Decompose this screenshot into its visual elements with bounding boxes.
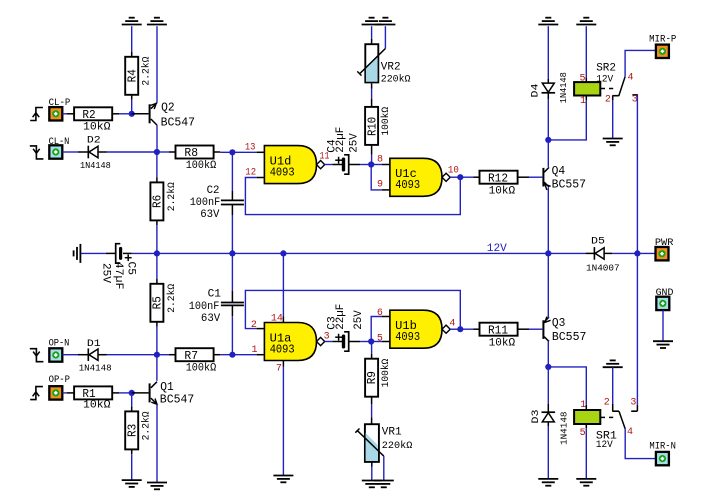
wire D1 to node (107, 354, 157, 356)
wire feedback U1c to U1d pin12 (245, 177, 460, 214)
label R11 (488, 323, 515, 349)
svg-text:100kΩ: 100kΩ (380, 359, 392, 388)
svg-text:10: 10 (448, 165, 459, 176)
wire node to U1c pin9 (371, 165, 390, 190)
node junction U1c out/R12/feedback (457, 174, 463, 180)
label D2 (80, 134, 111, 171)
node junction R8/C2/pin13 (229, 149, 235, 155)
svg-text:25V: 25V (353, 310, 365, 330)
svg-text:R6: R6 (151, 195, 165, 208)
svg-text:12V: 12V (596, 74, 614, 86)
wire node to U1b pin6 (371, 317, 390, 342)
svg-text:4: 4 (449, 319, 455, 330)
wire R9 to VR1 (371, 404, 373, 424)
svg-text:1N4148: 1N4148 (79, 362, 112, 373)
input symbol falling edge at CL-N (30, 146, 44, 159)
switch SR1 pin2 contact (612, 404, 619, 411)
svg-text:SR2: SR2 (596, 62, 616, 74)
label GND (656, 288, 674, 299)
wire node down to R6 (156, 152, 158, 182)
pin 1 label (252, 345, 258, 356)
wire C3 to node (360, 341, 371, 343)
wire SR2 coil to ground (585, 26, 587, 77)
svg-text:1: 1 (580, 400, 586, 411)
label D5 (586, 235, 620, 273)
svg-text:D1: D1 (87, 338, 101, 350)
wire U1c output to node (450, 176, 460, 178)
pin 3 label (324, 332, 330, 343)
ground above VR2 wiper (375, 18, 395, 25)
wire GND to ground (662, 310, 664, 341)
pin 1 label SR1 (580, 400, 586, 411)
net label 12V (487, 243, 507, 255)
wire D2 to node (107, 151, 157, 153)
nand gate U1b (390, 310, 450, 348)
ground below Q1 (147, 483, 167, 490)
svg-text:VR2: VR2 (381, 62, 401, 74)
label R9 (365, 359, 392, 388)
wire R11 to Q3 base (529, 328, 542, 330)
transistor Q3 (542, 317, 550, 342)
label R6 (151, 182, 178, 211)
ground above SR1 switch (603, 360, 623, 367)
node junction C4/R10/U1c pins (368, 161, 374, 167)
connector PWR (656, 247, 669, 260)
svg-text:220kΩ: 220kΩ (382, 440, 413, 452)
pin 9 label (377, 180, 383, 191)
wire node to R12 (460, 176, 479, 178)
svg-text:D4: D4 (530, 84, 542, 98)
svg-text:1N4148: 1N4148 (559, 411, 570, 445)
label R5 (151, 284, 178, 313)
svg-text:12V: 12V (596, 439, 613, 451)
wire R2 to node (119, 113, 132, 115)
svg-text:47µF: 47µF (112, 262, 124, 290)
wire C2 to 12V rail (231, 215, 233, 253)
connector OP-P (49, 386, 62, 399)
pin 7 label (276, 364, 282, 375)
svg-text:25V: 25V (100, 263, 112, 283)
ground left end of 12V rail (74, 244, 81, 263)
pin 10 label (448, 165, 459, 176)
label Q4 (552, 165, 587, 192)
svg-text:9: 9 (377, 180, 383, 191)
wire Q3 collector down to node (547, 341, 549, 367)
wire Q2 emitter to ground (156, 26, 158, 102)
svg-text:4093: 4093 (395, 178, 420, 192)
svg-text:R2: R2 (82, 108, 95, 122)
svg-text:63V: 63V (201, 313, 221, 325)
transistor Q1 (149, 382, 157, 405)
ground above R4 (122, 18, 142, 25)
capacitor C2 (221, 200, 244, 215)
label R10 (365, 107, 392, 136)
svg-text:D2: D2 (87, 134, 101, 146)
svg-text:10kΩ: 10kΩ (83, 121, 111, 133)
ground below SR2 switch (603, 139, 623, 146)
pin 4 label SR2 (628, 73, 634, 84)
label D1 (79, 338, 112, 373)
svg-text:1N4148: 1N4148 (558, 72, 569, 103)
variable resistor VR1 (355, 424, 384, 466)
pin 2 label SR2 (605, 94, 611, 105)
node junction rail/SR2-SR1 pin3 (634, 250, 640, 256)
variable resistor VR2 (357, 39, 385, 82)
svg-text:R11: R11 (488, 323, 508, 337)
wire C4 to node (360, 164, 371, 166)
pin 12 label (245, 167, 256, 178)
resistor R5 (150, 284, 163, 327)
ground above Q2 emitter (147, 18, 167, 25)
svg-text:PWR: PWR (655, 238, 674, 249)
node junction rail/C2/C1 (229, 250, 235, 256)
svg-text:4093: 4093 (270, 166, 295, 180)
label R4 (125, 57, 152, 86)
connector GND (656, 297, 669, 310)
resistor R8 (176, 146, 221, 159)
svg-text:1N4148: 1N4148 (80, 160, 111, 171)
svg-text:R9: R9 (365, 371, 379, 384)
svg-text:CL-N: CL-N (49, 137, 70, 148)
label R1 (82, 387, 111, 412)
svg-text:10kΩ: 10kΩ (489, 185, 516, 197)
svg-text:Q2: Q2 (161, 102, 175, 115)
connector CL-P (49, 107, 62, 120)
svg-text:R10: R10 (365, 117, 379, 136)
wire CL-N to D2 (62, 151, 88, 153)
wire node to U1b pin5 (371, 341, 390, 343)
diode D4 (542, 83, 556, 93)
pin 14 label (271, 314, 283, 325)
svg-text:OP-N: OP-N (49, 338, 70, 349)
wire VR2 wiper to ground (384, 26, 386, 48)
resistor R11 (480, 323, 530, 336)
resistor R6 (150, 182, 163, 225)
wire U1a pin7 to ground (282, 361, 284, 476)
pin 11 label (320, 151, 330, 162)
nand gate U1d (264, 146, 324, 184)
label VR1 (382, 427, 413, 452)
svg-text:3: 3 (630, 398, 636, 409)
svg-text:100kΩ: 100kΩ (186, 160, 217, 172)
wire node to U1c pin8 (371, 164, 390, 166)
svg-text:BC557: BC557 (552, 331, 587, 344)
wire VR1 to ground (371, 467, 373, 481)
wire SR1 pin3 to 12V rail (636, 253, 638, 405)
connector MIR-N (656, 452, 669, 465)
resistor R9 (365, 359, 378, 404)
node junction Q3/D3/SR1 (545, 364, 551, 370)
svg-text:5: 5 (580, 74, 586, 85)
label D3 (530, 410, 570, 446)
wire 12V rail from left ground to PWR (81, 252, 656, 254)
label R2 (82, 108, 111, 133)
pin 6 label (377, 308, 383, 319)
diode D2 (88, 146, 107, 159)
transistor Q4 (542, 167, 550, 190)
nand gate U1c (390, 158, 450, 196)
wire R5 to node (156, 327, 158, 355)
label R3 (125, 411, 152, 440)
svg-text:4: 4 (628, 73, 634, 84)
input symbol rising edge at OP-P (30, 387, 43, 400)
svg-text:2: 2 (605, 94, 611, 105)
svg-text:63V: 63V (200, 209, 220, 221)
ground below VR1 (362, 481, 382, 488)
svg-text:2: 2 (604, 398, 610, 409)
switch SR2 armature (619, 77, 625, 96)
pin 3 label SR2 (632, 94, 638, 105)
pin 5 label (377, 333, 383, 344)
ground below GND connector (653, 341, 673, 348)
wire R12 to Q4 base (529, 176, 542, 178)
node junction C3/R9/U1b pins (368, 338, 374, 344)
wire R10 to VR2 (371, 83, 373, 102)
input symbol rising edge at CL-P (30, 108, 43, 121)
wire node to R7 (157, 354, 176, 356)
svg-text:2.2kΩ: 2.2kΩ (166, 284, 178, 313)
wire U1d output to C4 (325, 164, 342, 166)
label D4 (530, 72, 569, 103)
wire node down to D3 (547, 367, 549, 412)
wire node down to C2 (231, 152, 233, 200)
node junction U1b out/R11/feedback (457, 326, 463, 332)
wire node to SR2 coil (548, 96, 586, 140)
label R12 (488, 172, 515, 198)
connector MIR-P (656, 45, 669, 58)
pin 2 label (251, 320, 257, 331)
wire ground to R4 (131, 26, 133, 57)
svg-text:R5: R5 (151, 296, 165, 309)
svg-text:13: 13 (245, 142, 256, 153)
wire feedback U1b to U1a pin2 (245, 290, 460, 329)
pin 13 label (245, 142, 256, 153)
resistor R2 (74, 107, 119, 120)
wire SR2 pin4 to MIR-P (625, 50, 656, 76)
ground below D3 (538, 479, 558, 486)
svg-text:2.2kΩ: 2.2kΩ (141, 411, 153, 440)
switch SR2 pin3 contact (632, 94, 638, 96)
relay coil SR2 (574, 77, 613, 95)
connector OP-N (49, 348, 62, 361)
wire D4 to ground (547, 26, 549, 83)
ground below R3 (122, 480, 142, 487)
ground below U1a (273, 476, 293, 483)
svg-text:5: 5 (580, 428, 586, 439)
svg-text:Q4: Q4 (552, 165, 566, 178)
svg-text:5: 5 (377, 333, 383, 344)
svg-text:C1: C1 (208, 289, 222, 301)
svg-text:10kΩ: 10kΩ (489, 338, 516, 350)
label C3 value (326, 304, 365, 330)
svg-text:1: 1 (580, 96, 586, 107)
label Q2 (161, 102, 196, 130)
wire R6 to 12V rail (156, 225, 158, 253)
switch SR1 armature (619, 411, 625, 429)
wire node down to R3 (131, 393, 133, 412)
svg-text:8: 8 (377, 154, 383, 165)
pin 4 label SR1 (627, 427, 633, 438)
pin 4 label (449, 319, 455, 330)
wire node to R11 (460, 328, 479, 330)
wire SR2 pin3 to 12V rail (636, 95, 638, 254)
svg-text:12V: 12V (487, 243, 507, 255)
wire Q4 emitter down to rail (547, 187, 549, 253)
wire SR2 pin2 to ground (612, 100, 614, 138)
label MIR-P (649, 34, 676, 45)
relay coil SR1 (574, 410, 613, 428)
svg-text:4093: 4093 (395, 330, 420, 344)
svg-text:4093: 4093 (270, 342, 295, 356)
label CL-P (49, 98, 71, 109)
svg-text:VR1: VR1 (382, 427, 402, 439)
label C2 (190, 185, 221, 221)
switch SR1 pin3 contact (631, 405, 637, 411)
label C1 (189, 289, 222, 325)
diode D3 (542, 412, 556, 422)
wire SR1 pin4 to MIR-N (625, 429, 656, 459)
wire C1 to node (231, 316, 233, 355)
wire node up to R10 (371, 145, 373, 165)
wire R4 to node (131, 100, 133, 114)
pin 2 label SR1 (604, 398, 610, 409)
svg-text:CL-P: CL-P (49, 98, 71, 109)
label Q1 (160, 381, 195, 406)
wire node up to D4 (547, 93, 549, 140)
pin 1 label SR2 (580, 96, 586, 107)
wire Q3 emitter up to rail (547, 253, 549, 317)
ground above VR2 (362, 18, 382, 25)
capacitor C4 (335, 155, 360, 174)
svg-text:D3: D3 (530, 410, 542, 424)
svg-text:1N4007: 1N4007 (586, 262, 620, 273)
resistor R4 (125, 57, 138, 100)
switch SR2 pin2 contact (612, 96, 618, 100)
svg-text:OP-P: OP-P (49, 375, 70, 386)
label C5 value (100, 262, 137, 290)
svg-text:BC547: BC547 (161, 116, 196, 129)
wire OP-P to R1 (62, 392, 74, 394)
label OP-P (49, 375, 70, 386)
wire node down to R9 (371, 342, 373, 359)
svg-text:100kΩ: 100kΩ (186, 363, 217, 375)
pin 3 label SR1 (630, 398, 636, 409)
connector CL-N (49, 145, 62, 158)
pin 8 label (377, 154, 383, 165)
wire node down to Q1 collector (156, 355, 158, 381)
label SR1 (596, 431, 617, 451)
svg-text:C2: C2 (207, 185, 220, 197)
resistor R10 (365, 102, 378, 145)
svg-text:6: 6 (377, 308, 383, 319)
wire rail to R5 (156, 253, 158, 283)
label CL-N (49, 137, 70, 148)
svg-text:7: 7 (276, 364, 282, 375)
label C4 value (326, 127, 360, 153)
wire node to Q1 base (132, 392, 149, 394)
node junction rail/Q4-Q3 emitters (545, 250, 551, 256)
ground above SR2 coil (576, 18, 596, 25)
wire VR1 wiper to ground (383, 456, 385, 480)
node junction rail/U1a pin14 (280, 250, 286, 256)
wire Q4 collector up to node (547, 140, 549, 167)
svg-text:10kΩ: 10kΩ (83, 400, 111, 412)
svg-text:100kΩ: 100kΩ (380, 107, 392, 136)
label Q3 (552, 317, 587, 344)
ground below VR1 wiper (374, 481, 394, 488)
svg-text:GND: GND (656, 288, 674, 299)
input symbol falling edge at OP-N (30, 349, 44, 362)
label U1b (395, 319, 420, 344)
wire R8 to U1d pin13 (220, 151, 264, 153)
svg-text:R4: R4 (125, 69, 139, 82)
label R7 (184, 349, 216, 375)
resistor R1 (74, 386, 119, 399)
svg-text:22µF: 22µF (335, 127, 347, 153)
svg-text:Q1: Q1 (160, 381, 174, 394)
pin 5 label SR1 (580, 428, 586, 439)
svg-text:Q3: Q3 (552, 317, 566, 330)
svg-text:12: 12 (245, 167, 256, 178)
wire rail to U1a pin14 (282, 253, 284, 322)
wire R3 to ground (131, 454, 133, 480)
label R8 (184, 146, 216, 172)
capacitor C1 (221, 303, 244, 317)
wire U1a pin1 stub (257, 354, 265, 356)
node junction Q2/D2/R8/R6 (154, 149, 160, 155)
wire VR2 to ground (371, 26, 373, 39)
svg-text:BC557: BC557 (552, 179, 587, 192)
wire U1b output to node (450, 328, 460, 330)
svg-text:R12: R12 (488, 172, 508, 186)
svg-text:2: 2 (251, 320, 257, 331)
diode D5 (586, 247, 613, 260)
wire R7 to U1a pin1 (220, 354, 256, 356)
svg-text:25V: 25V (348, 133, 360, 153)
node junction R2/R4/Q2 base (129, 111, 135, 117)
resistor R7 (176, 348, 221, 361)
svg-text:2.2kΩ: 2.2kΩ (166, 182, 178, 211)
label U1c (395, 167, 420, 192)
capacitor C3 (335, 332, 360, 351)
ground below SR1 coil (576, 479, 596, 486)
node junction D1/R5/R7/Q1 (154, 352, 160, 358)
svg-text:4: 4 (627, 427, 633, 438)
wire D3 to ground (547, 422, 549, 479)
diode D1 (88, 348, 107, 361)
label VR2 (381, 62, 411, 86)
svg-text:BC547: BC547 (160, 393, 195, 406)
svg-text:100nF: 100nF (189, 301, 220, 313)
wire node to Q2 base (132, 113, 149, 115)
svg-text:R3: R3 (125, 424, 139, 437)
wire R1 to node (119, 392, 132, 394)
wire Q1 emitter to ground (156, 404, 158, 482)
capacitor C5 (106, 244, 132, 263)
nand gate U1a (264, 323, 324, 361)
node junction D4/SR2/Q4 (545, 137, 551, 143)
node junction C1/R7 wire (229, 352, 235, 358)
svg-text:220kΩ: 220kΩ (381, 74, 411, 86)
svg-text:100nF: 100nF (190, 197, 221, 209)
wire node to SR1 coil (548, 367, 586, 410)
node junction rail/R6/R5 (154, 250, 160, 256)
svg-text:MIR-N: MIR-N (649, 441, 676, 452)
wire CL-P to R2 (62, 113, 74, 115)
wire node to R8 (157, 151, 176, 153)
svg-text:C5: C5 (125, 262, 137, 276)
wire OP-N to D1 (62, 354, 88, 356)
